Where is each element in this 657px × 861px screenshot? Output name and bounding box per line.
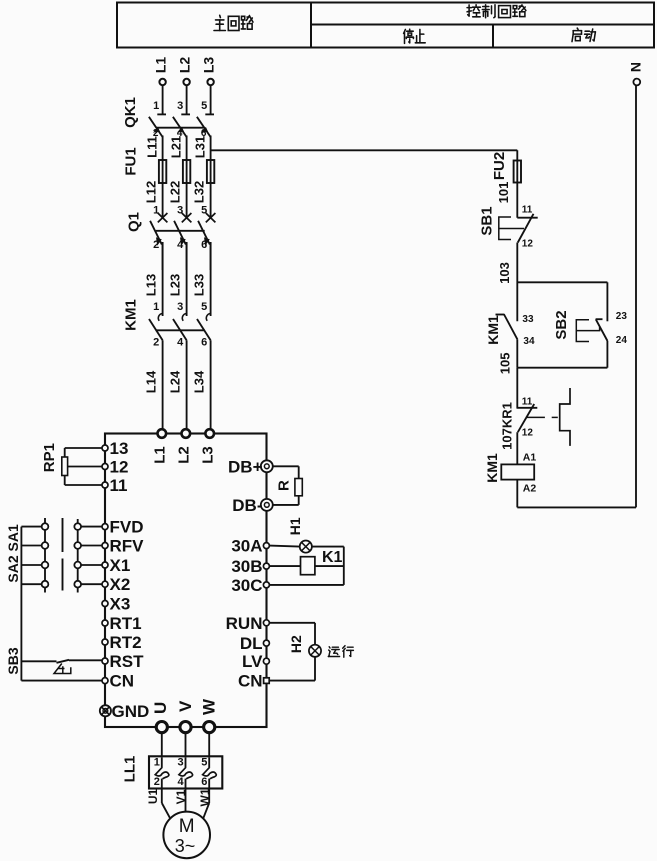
svg-text:RT2: RT2 bbox=[110, 633, 142, 652]
wire H2 to CN bbox=[314, 657, 316, 681]
inverter output terminals U V W bbox=[156, 722, 167, 733]
svg-text:FU2: FU2 bbox=[491, 152, 508, 180]
SA blades vertical bbox=[44, 518, 46, 593]
wire SB1 to node 103 bbox=[516, 243, 518, 322]
svg-text:U1: U1 bbox=[146, 789, 160, 805]
KM1 linkage bar bbox=[156, 329, 205, 331]
inverter terminal RT2 bbox=[102, 639, 108, 645]
cell text 启动 bbox=[572, 28, 582, 41]
wire control branch tap from L31 bbox=[211, 149, 518, 151]
wire 30C bbox=[269, 584, 343, 586]
svg-text:24: 24 bbox=[616, 335, 628, 346]
SB1 actuator bbox=[499, 217, 524, 240]
svg-text:L23: L23 bbox=[167, 274, 182, 296]
wire RUN to H2 bbox=[269, 622, 315, 624]
svg-text:RP1: RP1 bbox=[41, 443, 58, 472]
wire 30A to H1 bbox=[269, 546, 299, 547]
svg-text:3: 3 bbox=[177, 205, 183, 217]
svg-text:5: 5 bbox=[201, 100, 207, 112]
svg-text:107KR1: 107KR1 bbox=[499, 402, 514, 450]
svg-text:LV: LV bbox=[242, 652, 263, 671]
svg-text:K1: K1 bbox=[322, 549, 343, 566]
inverter terminal CN right bbox=[264, 678, 270, 684]
wire SB2 to node 105 bbox=[606, 341, 608, 368]
svg-text:30B: 30B bbox=[231, 557, 262, 576]
svg-text:L33: L33 bbox=[191, 274, 206, 296]
svg-text:1: 1 bbox=[153, 100, 159, 112]
inverter terminal FVD bbox=[102, 524, 108, 530]
fuse FU2 bbox=[516, 150, 518, 217]
svg-text:11: 11 bbox=[522, 397, 533, 408]
inverter terminal DB- bbox=[261, 499, 273, 511]
svg-text:L11: L11 bbox=[144, 136, 159, 158]
svg-text:X2: X2 bbox=[110, 575, 131, 594]
svg-text:2: 2 bbox=[153, 337, 159, 349]
SB1 blade bbox=[518, 214, 534, 243]
svg-text:SB1: SB1 bbox=[479, 206, 496, 235]
svg-text:3: 3 bbox=[178, 756, 184, 768]
wire L3 to QK1 bbox=[210, 85, 212, 113]
svg-text:L22: L22 bbox=[167, 181, 182, 203]
svg-text:LL1: LL1 bbox=[122, 756, 139, 783]
svg-text:12: 12 bbox=[522, 428, 534, 439]
svg-text:SB3: SB3 bbox=[5, 647, 21, 674]
svg-text:30A: 30A bbox=[231, 537, 262, 556]
cell text 停止 bbox=[404, 29, 414, 43]
node 103 branch to SB2 bbox=[517, 281, 607, 283]
svg-text:5: 5 bbox=[201, 756, 207, 768]
wire U V W to LL1 bbox=[161, 732, 163, 757]
inverter terminal 12 bbox=[102, 464, 108, 470]
svg-text:RFV: RFV bbox=[110, 537, 145, 556]
SB3 actuator bbox=[54, 664, 71, 674]
svg-text:KM1: KM1 bbox=[485, 315, 501, 345]
svg-text:L3: L3 bbox=[200, 446, 217, 464]
wire H1 to node bbox=[312, 546, 344, 548]
svg-text:6: 6 bbox=[201, 776, 207, 788]
wire DB+ to R bbox=[273, 465, 299, 467]
svg-text:L21: L21 bbox=[168, 136, 183, 158]
inverter terminal X3 bbox=[102, 601, 108, 607]
inverter terminal X2 bbox=[102, 581, 108, 587]
svg-text:101: 101 bbox=[496, 182, 511, 204]
svg-text:DB-: DB- bbox=[232, 496, 262, 515]
KR1 blade bbox=[518, 404, 534, 432]
svg-text:A2: A2 bbox=[523, 483, 537, 495]
svg-text:33: 33 bbox=[522, 314, 534, 325]
Q1 linkage bar bbox=[156, 230, 205, 232]
svg-text:H1: H1 bbox=[287, 517, 303, 535]
SB3 blade bbox=[57, 660, 70, 663]
svg-text:2: 2 bbox=[154, 776, 160, 788]
wire L1 to QK1 bbox=[162, 85, 164, 113]
svg-text:6: 6 bbox=[201, 239, 207, 251]
svg-text:RST: RST bbox=[110, 652, 145, 671]
ground terminal GND bbox=[100, 705, 111, 716]
svg-text:1: 1 bbox=[153, 301, 159, 313]
inverter terminal X1 bbox=[102, 562, 108, 568]
svg-text:X1: X1 bbox=[110, 556, 131, 575]
svg-text:Q1: Q1 bbox=[126, 212, 143, 232]
svg-text:N: N bbox=[627, 62, 643, 72]
svg-text:RT1: RT1 bbox=[110, 614, 142, 633]
SB2 actuator bbox=[576, 320, 599, 342]
inverter terminal CN bbox=[102, 678, 108, 684]
svg-text:L34: L34 bbox=[191, 370, 206, 393]
svg-text:L2: L2 bbox=[176, 446, 193, 464]
SB1 top tick pin 11 bbox=[517, 217, 537, 219]
svg-text:DL: DL bbox=[240, 634, 263, 653]
svg-text:3: 3 bbox=[177, 301, 183, 313]
inverter terminal LV bbox=[263, 658, 269, 664]
svg-text:12: 12 bbox=[110, 458, 129, 477]
svg-text:L24: L24 bbox=[167, 370, 182, 393]
cell text 主回路 bbox=[214, 15, 225, 30]
wire coil to N line bbox=[517, 506, 636, 508]
svg-text:CN: CN bbox=[110, 672, 135, 691]
svg-text:3~: 3~ bbox=[175, 836, 196, 856]
svg-text:1: 1 bbox=[153, 205, 159, 217]
cell text 控制回路 bbox=[467, 5, 480, 17]
inverter input terminals L1 L2 L3 bbox=[158, 429, 167, 438]
svg-text:6: 6 bbox=[201, 337, 207, 349]
svg-text:L12: L12 bbox=[143, 181, 158, 203]
svg-text:QK1: QK1 bbox=[122, 97, 139, 128]
svg-text:W: W bbox=[200, 698, 219, 715]
svg-text:12: 12 bbox=[522, 239, 534, 250]
KR1 thermal element bbox=[560, 388, 570, 446]
svg-text:H2: H2 bbox=[288, 635, 304, 653]
svg-text:2: 2 bbox=[153, 239, 159, 251]
inverter terminal RUN bbox=[263, 620, 269, 626]
svg-text:M: M bbox=[179, 816, 195, 837]
SA contact row at 526.6 bbox=[21, 526, 41, 528]
title block table bbox=[117, 3, 654, 48]
inverter terminal 13 bbox=[102, 445, 108, 451]
wire Q1 to KM1 (L13,L23,L33) bbox=[162, 242, 164, 316]
svg-text:L31: L31 bbox=[192, 136, 207, 158]
svg-text:KM1: KM1 bbox=[484, 453, 500, 483]
QK1 linkage bar bbox=[156, 127, 204, 129]
inverter terminal RST bbox=[102, 658, 108, 664]
svg-text:23: 23 bbox=[616, 311, 628, 322]
svg-text:4: 4 bbox=[178, 776, 185, 788]
inverter terminal 30A bbox=[263, 543, 269, 549]
svg-text:11: 11 bbox=[522, 205, 533, 216]
wire bus to CN bbox=[21, 680, 102, 682]
svg-text:30C: 30C bbox=[231, 576, 262, 595]
svg-text:105: 105 bbox=[497, 353, 512, 375]
svg-text:103: 103 bbox=[497, 262, 512, 284]
svg-text:SB2: SB2 bbox=[553, 310, 570, 339]
svg-text:4: 4 bbox=[177, 239, 184, 251]
wire QK1 to FU1 (L11,L21,L31) bbox=[162, 136, 164, 161]
SA contact row at 584.2 bbox=[21, 583, 41, 585]
svg-text:U: U bbox=[151, 702, 170, 714]
KR1 linkage dashes bbox=[526, 416, 545, 418]
SA linkage dashed bbox=[62, 518, 64, 552]
svg-text:5: 5 bbox=[201, 301, 207, 313]
svg-text:SA2 SA1: SA2 SA1 bbox=[5, 524, 21, 583]
SA contact row at 565.0 bbox=[21, 564, 41, 566]
inverter terminal RT1 bbox=[102, 620, 108, 626]
svg-text:A1: A1 bbox=[523, 452, 537, 464]
inverter terminal 30B bbox=[263, 563, 269, 569]
svg-text:L13: L13 bbox=[143, 274, 158, 296]
svg-text:X3: X3 bbox=[110, 595, 131, 614]
svg-text:4: 4 bbox=[177, 337, 184, 349]
svg-text:FU1: FU1 bbox=[123, 147, 140, 175]
svg-text:V: V bbox=[176, 700, 195, 712]
svg-text:GND: GND bbox=[112, 702, 150, 721]
svg-text:13: 13 bbox=[110, 439, 129, 458]
svg-text:L14: L14 bbox=[143, 370, 158, 393]
svg-text:L3: L3 bbox=[201, 57, 217, 74]
svg-text:L2: L2 bbox=[177, 57, 193, 74]
svg-text:RUN: RUN bbox=[226, 614, 263, 633]
SA common bus bbox=[20, 527, 22, 681]
svg-text:34: 34 bbox=[523, 336, 535, 347]
wire R to DB- bbox=[298, 496, 300, 505]
inverter terminal DB+ bbox=[261, 460, 273, 472]
inverter terminal 30C bbox=[263, 582, 269, 588]
inverter U1 box bbox=[105, 434, 267, 728]
svg-text:L1: L1 bbox=[152, 446, 169, 464]
inverter terminal RFV bbox=[102, 543, 108, 549]
wire N bbox=[635, 85, 637, 507]
svg-text:L32: L32 bbox=[191, 181, 206, 203]
svg-text:L1: L1 bbox=[153, 57, 169, 74]
svg-text:KM1: KM1 bbox=[123, 299, 140, 331]
svg-text:1: 1 bbox=[154, 756, 160, 768]
inverter terminal DL bbox=[263, 640, 269, 646]
svg-text:CN: CN bbox=[238, 672, 263, 691]
SA contact row at 545.5 bbox=[21, 545, 41, 547]
svg-text:R: R bbox=[276, 480, 293, 491]
svg-text:DB+: DB+ bbox=[228, 458, 263, 477]
svg-text:5: 5 bbox=[201, 205, 207, 217]
inverter terminal 11 bbox=[102, 482, 108, 488]
motor M 3~ bbox=[163, 812, 210, 859]
svg-text:11: 11 bbox=[110, 476, 128, 495]
svg-text:3: 3 bbox=[177, 100, 183, 112]
KR1 tick pin 11 bbox=[517, 407, 537, 409]
svg-text:FVD: FVD bbox=[110, 518, 144, 537]
wire L2 to QK1 bbox=[186, 85, 188, 113]
wire KR1 to coil bbox=[516, 432, 518, 464]
